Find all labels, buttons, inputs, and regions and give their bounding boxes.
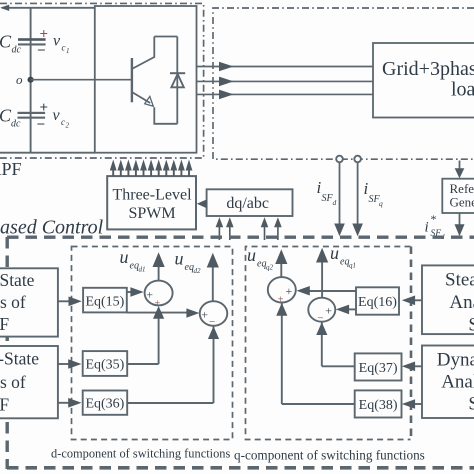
svg-text:u: u <box>330 243 339 263</box>
dq/abc box <box>207 189 293 216</box>
summing junction S2 <box>200 301 228 328</box>
outer control dashed box bottom edge <box>7 466 474 470</box>
svg-text:Analysis of: Analysis of <box>441 372 474 393</box>
svg-text:c: c <box>61 117 65 127</box>
arrow dynamic box to Eq36 <box>58 398 82 408</box>
arrow Reference Generation down <box>455 213 465 236</box>
arrow Eq15 to summer S1 <box>127 287 144 297</box>
summing junction S3 <box>268 277 296 305</box>
outer control dashed box top edge <box>7 235 474 238</box>
dash-dot enclosure box right (grid side) <box>213 8 474 159</box>
steady-state analysis box right <box>422 265 474 335</box>
svg-text:APF: APF <box>0 159 22 179</box>
svg-text:SF: SF <box>0 395 9 415</box>
svg-text:i: i <box>425 220 429 236</box>
svg-text:dq/abc: dq/abc <box>226 195 269 212</box>
svg-text:Eq(15): Eq(15) <box>85 294 124 309</box>
arrows ueq q into dq/abc <box>261 217 282 240</box>
svg-text:v: v <box>53 33 61 50</box>
current sensor tap d <box>336 156 343 163</box>
label u_eq_d2 <box>175 249 202 276</box>
gate drive arrows SPWM to inverter <box>110 160 193 177</box>
svg-text:o: o <box>16 72 23 87</box>
wire AC output phase a <box>197 62 373 72</box>
svg-text:Grid+3phase: Grid+3phase <box>382 58 474 80</box>
arrow dq/abc to SPWM <box>197 199 207 208</box>
svg-text:Eq(16): Eq(16) <box>358 295 397 310</box>
summing junction S1 <box>145 281 173 310</box>
svg-text:−: − <box>37 117 46 133</box>
Eq(16) box <box>356 287 399 314</box>
arrow u_eq_q1 output of S4 <box>316 248 328 298</box>
summing junction S4 <box>308 298 335 325</box>
svg-text:u: u <box>247 245 256 265</box>
svg-text:dc: dc <box>12 45 22 56</box>
svg-text:Analysis of: Analysis of <box>449 292 474 313</box>
wire AC output phase b <box>197 77 373 87</box>
svg-text:+: + <box>155 299 161 310</box>
svg-text:+: + <box>286 284 293 298</box>
svg-text:q1: q1 <box>349 262 356 270</box>
svg-text:Analysis of: Analysis of <box>0 292 26 312</box>
svg-text:Dynamic-State: Dynamic-State <box>437 350 474 371</box>
svg-text:c: c <box>62 43 66 53</box>
svg-text:Analysis of: Analysis of <box>0 372 26 392</box>
svg-text:v: v <box>53 107 61 124</box>
svg-text:−: − <box>209 316 215 328</box>
svg-text:Eq(37): Eq(37) <box>359 361 398 376</box>
svg-text:u: u <box>120 247 129 267</box>
wire Eq15 corner to summer S2 <box>127 308 200 317</box>
dash-dot enclosure box left (APF circuit) <box>0 3 204 158</box>
svg-text:Based Control: Based Control <box>0 217 104 239</box>
label u_eq_d1 <box>120 247 146 274</box>
q-component dashed box <box>246 247 412 440</box>
capacitor Cdc2 <box>0 100 70 133</box>
wire AC output phase c <box>197 90 373 100</box>
transistor Q1 (IGBT) <box>132 37 177 124</box>
arrow steady box to Eq16 <box>402 296 422 306</box>
svg-text:d1: d1 <box>139 266 146 274</box>
wire iSFd down <box>334 162 345 236</box>
node o (midpoint) <box>16 72 34 87</box>
svg-text:+: + <box>40 27 49 43</box>
inverter box <box>95 6 197 153</box>
svg-text:1: 1 <box>66 47 70 55</box>
capacitor Cdc1 <box>0 27 70 60</box>
svg-text:+: + <box>201 308 208 322</box>
label iSFd <box>317 178 337 207</box>
label u_eq_q1 <box>330 243 356 270</box>
svg-text:C: C <box>0 32 12 52</box>
dynamic-state analysis of SF box (left, cut) <box>0 346 58 418</box>
wire Eq37 up into S4 <box>316 322 355 366</box>
svg-text:Steady-State: Steady-State <box>0 270 35 290</box>
svg-text:Three-Level: Three-Level <box>112 187 192 204</box>
svg-text:u: u <box>175 249 184 269</box>
svg-text:*: * <box>431 212 437 226</box>
arrow steady box to Eq15 <box>58 297 82 307</box>
svg-text:2: 2 <box>66 122 70 130</box>
Eq(15) box <box>83 288 127 313</box>
diode D1 (anti-parallel) <box>170 73 185 87</box>
wire Eq35 up into S1 <box>127 306 164 364</box>
dynamic-state analysis box right <box>422 346 474 419</box>
svg-text:−: − <box>37 43 46 59</box>
svg-text:Eq(35): Eq(35) <box>85 357 124 372</box>
wire node o to IGBT gate <box>31 79 132 81</box>
label u_eq_q2 <box>247 245 274 272</box>
svg-text:d2: d2 <box>194 267 202 275</box>
arrow dynamic box to Eq35 <box>58 359 82 369</box>
outer control dashed box left edge <box>5 237 8 469</box>
svg-text:+: + <box>278 295 284 306</box>
arrow u_eq_q2 output of S3 <box>275 249 287 277</box>
label iSFq <box>364 179 384 208</box>
wire Eq36 up into S2 <box>127 326 219 403</box>
wire bottom DC rail <box>0 152 95 154</box>
emitter arrowhead of Q1 <box>145 96 154 106</box>
svg-text:q2: q2 <box>266 264 274 272</box>
svg-text:+: + <box>325 304 332 318</box>
grid + load box <box>373 43 474 118</box>
arrow u_eq_d2 output of S2 <box>207 253 219 301</box>
wire Eq38 up into S3 <box>276 303 355 404</box>
svg-text:SPWM: SPWM <box>128 205 175 222</box>
arrows ueq d into dq/abc <box>216 217 234 240</box>
Eq(38) box <box>355 390 402 417</box>
svg-text:Steady-State: Steady-State <box>445 270 474 291</box>
svg-text:d: d <box>333 198 337 207</box>
arrow dynamic box to Eq38 <box>402 399 422 409</box>
label iSFd* reference <box>425 212 446 241</box>
svg-text:SF: SF <box>468 315 474 336</box>
Reference Generation box <box>442 179 474 213</box>
svg-text:Genera: Genera <box>450 195 474 210</box>
wire Eq16 to S3 <box>297 286 357 296</box>
arrow u_eq_d1 output of S1 <box>153 252 165 280</box>
current sensor tap q <box>354 156 361 163</box>
svg-text:SF: SF <box>0 314 9 334</box>
svg-text:+: + <box>40 100 49 116</box>
Eq(36) box <box>83 391 128 415</box>
wire left DC bus vertical <box>30 8 32 153</box>
svg-text:q-component of switching funct: q-component of switching functions <box>234 448 425 463</box>
Eq(35) box <box>83 351 128 376</box>
wire Eq16 to S4 <box>336 305 356 315</box>
wire top DC rail with left arrow <box>0 5 95 11</box>
svg-text:q: q <box>379 199 383 208</box>
d-component dashed box <box>72 247 233 440</box>
svg-text:Eq(36): Eq(36) <box>85 396 124 411</box>
arrow dynamic box to Eq37 <box>402 362 422 372</box>
steady-state analysis of SF box (left, cut) <box>0 268 58 336</box>
svg-text:Eq(38): Eq(38) <box>359 398 398 413</box>
svg-text:dc: dc <box>11 119 21 130</box>
svg-text:d-component of switching funct: d-component of switching functions <box>51 447 230 461</box>
svg-text:SF: SF <box>468 394 474 415</box>
wire iSFq down <box>352 162 363 236</box>
Eq(37) box <box>355 353 402 380</box>
svg-text:Dynamic-State: Dynamic-State <box>0 349 39 369</box>
Three-Level SPWM box <box>107 176 196 229</box>
arrow into Reference Generation <box>455 161 465 179</box>
svg-text:+: + <box>146 288 153 302</box>
svg-text:load: load <box>451 79 474 101</box>
